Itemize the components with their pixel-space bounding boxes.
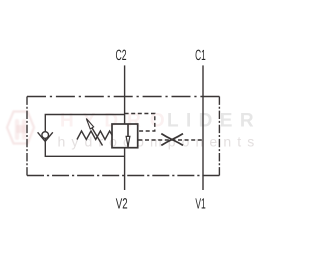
svg-text:C2: C2: [116, 48, 127, 64]
svg-text:LIDER: LIDER: [167, 111, 259, 132]
svg-text:C1: C1: [195, 48, 206, 64]
svg-text:V1: V1: [195, 196, 205, 212]
svg-text:V2: V2: [116, 196, 128, 212]
svg-text:HYDRO: HYDRO: [60, 111, 174, 132]
